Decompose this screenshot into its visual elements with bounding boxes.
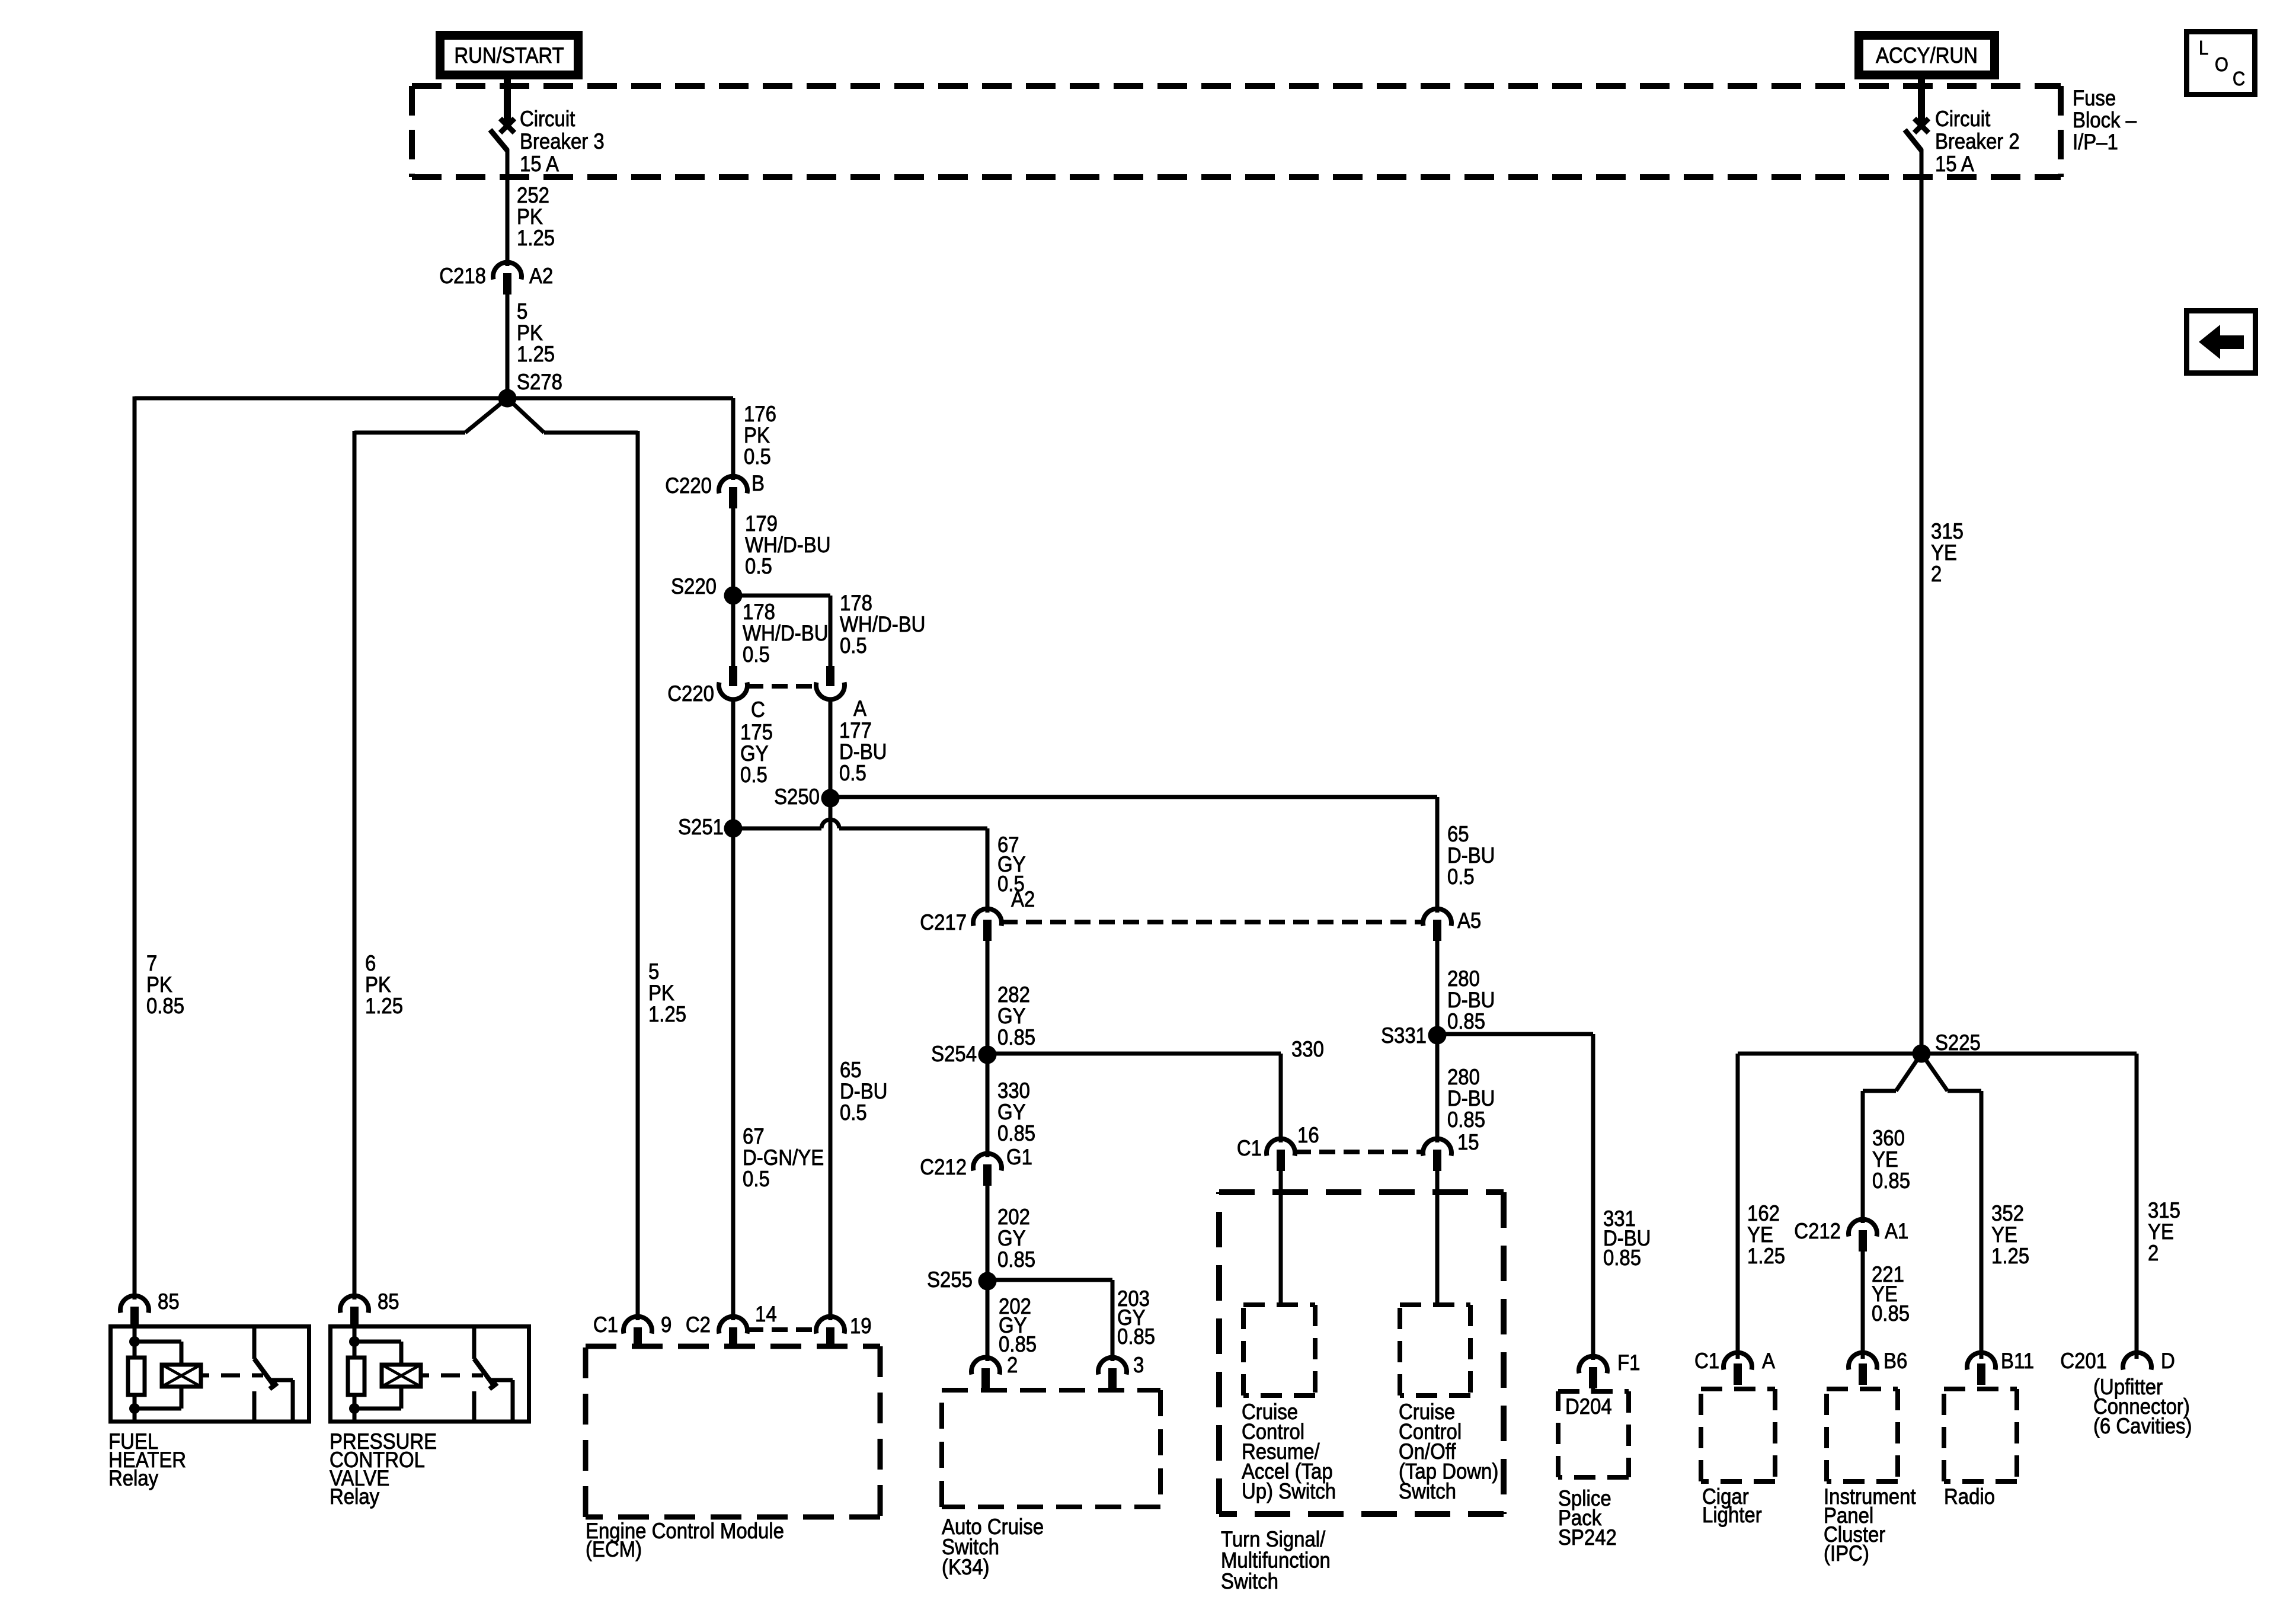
svg-text:C2: C2	[686, 1313, 711, 1337]
svg-text:9: 9	[661, 1313, 671, 1337]
svg-text:0.85: 0.85	[1872, 1169, 1910, 1193]
svg-text:Radio: Radio	[1944, 1484, 1995, 1509]
svg-text:0.5: 0.5	[740, 763, 768, 787]
svg-text:F1: F1	[1617, 1350, 1640, 1375]
svg-text:S254: S254	[931, 1042, 977, 1066]
svg-text:Relay: Relay	[108, 1466, 159, 1490]
svg-text:S225: S225	[1935, 1030, 1981, 1055]
svg-text:I/P–1: I/P–1	[2073, 130, 2118, 154]
svg-text:Circuit: Circuit	[520, 107, 575, 131]
svg-text:Switch: Switch	[1221, 1569, 1278, 1593]
svg-text:A2: A2	[529, 264, 553, 288]
svg-text:85: 85	[378, 1289, 399, 1314]
svg-text:Circuit: Circuit	[1935, 107, 1991, 131]
svg-text:0.85: 0.85	[997, 1247, 1035, 1272]
svg-text:1.25: 1.25	[1747, 1244, 1785, 1268]
svg-text:O: O	[2215, 53, 2228, 75]
svg-text:0.5: 0.5	[744, 444, 771, 469]
svg-text:0.85: 0.85	[997, 1025, 1035, 1049]
svg-text:2: 2	[1007, 1353, 1018, 1377]
svg-text:1.25: 1.25	[1991, 1244, 2029, 1268]
svg-text:0.5: 0.5	[1447, 865, 1475, 889]
svg-text:ACCY/RUN: ACCY/RUN	[1876, 43, 1978, 68]
svg-text:S278: S278	[517, 370, 562, 394]
svg-text:0.85: 0.85	[146, 994, 184, 1018]
svg-text:Block –: Block –	[2073, 108, 2137, 132]
svg-text:B11: B11	[2001, 1349, 2034, 1373]
svg-text:0.5: 0.5	[745, 554, 772, 578]
svg-text:Fuse: Fuse	[2073, 86, 2116, 110]
svg-text:A: A	[1762, 1349, 1776, 1373]
svg-text:B6: B6	[1884, 1349, 1907, 1373]
svg-text:C220: C220	[667, 681, 714, 706]
svg-text:1.25: 1.25	[517, 342, 555, 366]
svg-text:Lighter: Lighter	[1702, 1503, 1762, 1527]
svg-text:A: A	[853, 696, 867, 721]
svg-text:0.5: 0.5	[840, 1100, 867, 1125]
svg-text:15 A: 15 A	[1935, 152, 1975, 176]
svg-text:A2: A2	[1011, 887, 1035, 911]
svg-text:S250: S250	[774, 785, 820, 809]
svg-text:C218: C218	[439, 264, 486, 288]
svg-text:C201: C201	[2060, 1349, 2107, 1373]
svg-text:A1: A1	[1885, 1219, 1908, 1243]
svg-text:(6 Cavities): (6 Cavities)	[2093, 1414, 2192, 1438]
svg-text:L: L	[2199, 37, 2208, 59]
svg-text:0.85: 0.85	[1603, 1246, 1641, 1270]
svg-text:1.25: 1.25	[648, 1002, 686, 1026]
svg-text:14: 14	[755, 1302, 777, 1326]
svg-text:(IPC): (IPC)	[1824, 1541, 1869, 1566]
svg-text:Relay: Relay	[330, 1484, 380, 1509]
svg-text:C217: C217	[920, 910, 967, 934]
svg-text:S220: S220	[671, 574, 717, 598]
svg-text:C1: C1	[593, 1313, 618, 1337]
svg-text:C1: C1	[1694, 1349, 1719, 1373]
svg-text:0.85: 0.85	[1872, 1301, 1910, 1326]
svg-text:SP242: SP242	[1558, 1525, 1617, 1550]
svg-text:B: B	[752, 471, 765, 495]
svg-text:2: 2	[1931, 562, 1942, 586]
svg-text:15 A: 15 A	[520, 152, 559, 176]
svg-text:0.85: 0.85	[997, 1121, 1035, 1145]
svg-text:1.25: 1.25	[365, 994, 403, 1018]
svg-text:0.5: 0.5	[839, 761, 866, 785]
svg-text:0.5: 0.5	[840, 633, 867, 658]
svg-text:0.5: 0.5	[743, 1167, 770, 1191]
svg-text:Breaker 3: Breaker 3	[520, 129, 605, 153]
svg-text:D204: D204	[1565, 1394, 1612, 1419]
svg-text:330: 330	[1291, 1037, 1324, 1061]
svg-text:3: 3	[1133, 1353, 1144, 1377]
svg-text:C220: C220	[665, 473, 712, 498]
svg-text:G1: G1	[1006, 1145, 1032, 1169]
svg-text:RUN/START: RUN/START	[454, 43, 564, 68]
svg-text:D: D	[2161, 1349, 2175, 1373]
svg-text:1.25: 1.25	[517, 226, 555, 250]
svg-text:0.85: 0.85	[1117, 1324, 1155, 1349]
svg-text:S255: S255	[927, 1267, 973, 1292]
svg-text:Switch: Switch	[1399, 1479, 1456, 1503]
svg-text:0.5: 0.5	[743, 642, 770, 667]
svg-text:16: 16	[1297, 1123, 1319, 1147]
svg-text:(K34): (K34)	[942, 1555, 990, 1579]
svg-text:C212: C212	[920, 1155, 967, 1179]
svg-text:(ECM): (ECM)	[586, 1537, 642, 1561]
svg-text:0.85: 0.85	[1447, 1108, 1485, 1132]
svg-text:Breaker 2: Breaker 2	[1935, 129, 2020, 153]
svg-text:C212: C212	[1794, 1219, 1841, 1243]
svg-text:15: 15	[1457, 1130, 1479, 1154]
svg-text:0.85: 0.85	[1447, 1009, 1485, 1033]
svg-text:A5: A5	[1457, 908, 1481, 933]
svg-text:S331: S331	[1381, 1023, 1427, 1048]
svg-text:C: C	[2233, 68, 2245, 89]
svg-text:C: C	[751, 697, 765, 722]
svg-text:S251: S251	[678, 815, 724, 839]
svg-text:2: 2	[2148, 1241, 2159, 1265]
svg-text:Up) Switch: Up) Switch	[1242, 1479, 1336, 1503]
svg-text:85: 85	[158, 1289, 180, 1314]
svg-text:19: 19	[850, 1314, 872, 1338]
svg-text:C1: C1	[1237, 1136, 1262, 1160]
